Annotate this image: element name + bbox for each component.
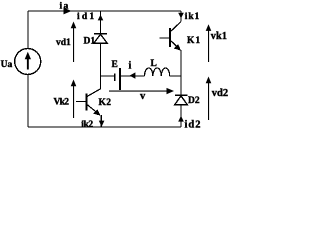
wire left upper [27,11,29,49]
wire bottom [28,126,181,128]
voltage arrow vk1 [208,30,209,62]
voltage arrow Vk2 [73,85,74,118]
source Ua arrow [25,52,31,59]
svg-text:Vk2: Vk2 [54,98,70,108]
wire right D2 to bottom [180,105,182,127]
diode D2 cathode bar [175,94,188,96]
wire D1 to mid junction to K2 collector [100,43,102,89]
current arrow id2 [178,116,184,122]
wire top [28,10,181,12]
voltage arrow v (horizontal, pointing right) [109,91,167,92]
wire mid branch coil to right [170,75,181,77]
voltage arrow vd2 [208,82,209,120]
svg-text:vd1: vd1 [56,38,71,48]
svg-text:ia: ia [60,2,70,12]
transistor K2 base bar [86,94,88,111]
battery E short plate [114,74,116,82]
svg-text:Ua: Ua [1,60,13,70]
voltage arrow vd1 [73,27,74,62]
svg-text:E: E [112,60,118,70]
svg-text:D1: D1 [84,37,96,47]
current arrow ia [64,8,72,15]
svg-text:K2: K2 [99,98,112,108]
svg-text:vd2: vd2 [212,88,228,99]
wire K2 emitter to bottom [100,115,102,127]
inductor L coil [145,68,170,76]
current arrow id1 [98,15,104,21]
source Ua circle [15,49,41,75]
transistor K2 emitter arrowhead [93,109,100,115]
svg-text:K1: K1 [187,36,201,46]
wire right upper [180,11,182,22]
svg-text:ik2: ik2 [81,120,93,130]
diode D2 triangle [175,96,187,105]
current arrow ik1 [178,13,184,19]
transistor K1 base bar [169,28,171,47]
svg-text:v: v [140,91,146,102]
transistor K1 collector [171,22,181,32]
current arrow i (mid branch, pointing left) [130,72,136,78]
svg-text:i: i [129,61,132,72]
transistor K1 base lead [160,37,171,39]
battery E long plate [119,68,121,90]
diode D1 cathode bar [94,33,107,35]
wire left lower [27,75,29,128]
current arrow ik2 [99,121,105,127]
transistor K2 base lead [76,101,87,103]
svg-text:D2: D2 [188,96,200,106]
svg-text:L: L [151,59,157,69]
transistor K1 emitter [171,41,181,51]
svg-text:id2: id2 [185,119,202,130]
transistor K2 emitter [87,105,100,116]
transistor K1 emitter arrowhead [174,44,181,51]
svg-text:vk1: vk1 [211,31,227,42]
wire mid branch battery to coil [121,75,145,77]
svg-text:id1: id1 [77,12,96,22]
wire mid branch left [101,75,115,77]
transistor K2 collector [87,89,101,97]
diode D1 triangle [94,34,108,43]
svg-text:ik1: ik1 [185,12,200,22]
wire right K1 emitter to D2 [180,50,182,95]
wire D1 branch upper [100,11,102,34]
